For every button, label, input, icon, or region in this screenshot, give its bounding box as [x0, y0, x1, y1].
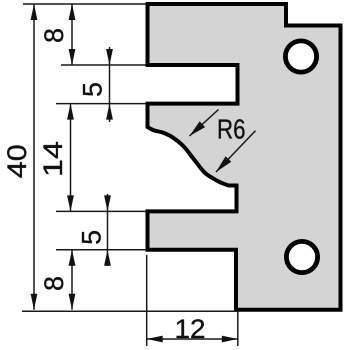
- arrowhead 8 top down: [69, 49, 76, 65]
- mounting hole bottom: [286, 241, 317, 272]
- leader line R6 upper: [190, 110, 219, 137]
- svg-text:R6: R6: [217, 114, 246, 145]
- arrowhead 5 bottom lower(points up): [104, 250, 111, 266]
- dimension line 5 top: [109, 47, 111, 122]
- arrowhead leader R6 lower: [216, 156, 231, 172]
- arrowhead 8 bottom up: [69, 250, 76, 266]
- plate profile body: [148, 4, 341, 310]
- dimension line 40: [33, 4, 35, 310]
- arrowhead 5 top lower(points up): [106, 104, 113, 120]
- svg-text:5: 5: [78, 82, 108, 97]
- extension line x=146.7 for 12: [146, 255, 148, 346]
- dimension line 5 bottom: [107, 194, 109, 266]
- dimension line 12: [147, 338, 238, 340]
- extension line x=237.8 for 12: [237, 311, 239, 346]
- arrowhead 14 up: [67, 104, 74, 120]
- arrowhead 5 top upper(points down): [106, 49, 113, 65]
- mounting hole top: [285, 41, 316, 72]
- extension line bottom y=311.2: [22, 310, 238, 312]
- dimension line 8 bottom: [71, 250, 73, 310]
- arrowhead 12 left: [147, 336, 163, 343]
- svg-text:14: 14: [38, 141, 68, 177]
- arrowhead 14 down: [67, 195, 74, 211]
- leader line R6 lower: [216, 131, 256, 172]
- extension line band top y=211: [56, 210, 146, 212]
- extension line slot top y=65.3: [61, 64, 146, 66]
- svg-text:8: 8: [39, 276, 69, 291]
- svg-text:12: 12: [175, 314, 206, 344]
- arrowhead 12 right: [222, 336, 238, 343]
- arrowhead 40 down: [31, 294, 38, 310]
- svg-text:40: 40: [2, 144, 32, 178]
- dimension line 14: [70, 104, 72, 212]
- arrowhead 8 bottom down: [69, 294, 76, 310]
- arrowhead 40 up: [31, 4, 38, 20]
- svg-text:8: 8: [39, 28, 69, 43]
- extension line top y=4: [23, 3, 146, 5]
- svg-text:5: 5: [76, 230, 106, 245]
- dimension line 8 top: [71, 4, 73, 65]
- arrowhead leader R6 upper: [190, 121, 206, 136]
- extension line band bottom y=249.4: [56, 249, 146, 251]
- arrowhead 5 bottom upper(points down): [104, 195, 111, 211]
- arrowhead 8 top up: [69, 4, 76, 20]
- extension line slot bottom y=103.6: [56, 103, 146, 105]
